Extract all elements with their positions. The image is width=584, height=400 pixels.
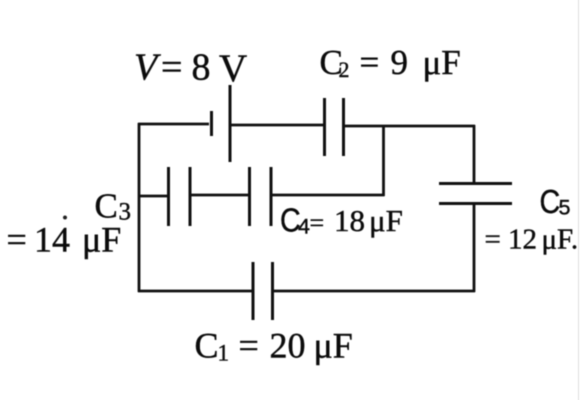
svg-text:V: V (219, 47, 247, 90)
wire bottom segment left (138, 290, 252, 293)
capacitor C1 right plate (271, 262, 274, 320)
svg-text:μF.: μF. (542, 224, 579, 256)
label C5 (540, 183, 571, 220)
stray dot above 4 (63, 216, 67, 220)
svg-text:=: = (239, 326, 259, 366)
svg-text:=: = (7, 220, 27, 260)
svg-text:μF: μF (82, 220, 121, 260)
svg-text:2: 2 (339, 57, 350, 82)
wire left vertical (138, 123, 141, 292)
svg-text:=: = (360, 43, 380, 82)
svg-text:14: 14 (34, 220, 70, 260)
svg-text:20: 20 (270, 326, 306, 366)
label C4 = 18 uF (280, 202, 403, 239)
svg-text:=: = (161, 47, 182, 89)
capacitor C2 right plate (342, 98, 345, 156)
capacitor C5 bottom plate (439, 202, 512, 205)
svg-text:1: 1 (218, 341, 230, 366)
wire top segment right (344, 125, 475, 128)
capacitor C1 left plate (252, 262, 255, 320)
svg-text:μF: μF (423, 43, 461, 82)
svg-text:8: 8 (192, 47, 211, 89)
capacitor C4 right plate (270, 167, 273, 226)
wire right vertical upper (473, 125, 476, 183)
wire from C4 to junction (272, 194, 385, 197)
battery V1 short plate (210, 111, 213, 136)
label = 12 uF. (485, 224, 579, 256)
capacitor C4 left plate (248, 167, 251, 226)
label C2 = 9 uF (320, 43, 461, 82)
wire top segment left (138, 123, 209, 126)
wire right vertical lower (473, 204, 476, 292)
svg-text:4: 4 (298, 215, 310, 239)
svg-text:9: 9 (391, 43, 409, 82)
svg-text:μF: μF (369, 203, 403, 238)
wire junction stub down (382, 126, 385, 196)
wire bottom segment right (274, 290, 476, 293)
wire top segment middle (231, 124, 323, 127)
capacitor C5 top plate (439, 182, 512, 185)
capacitor C3 right plate (189, 167, 192, 226)
label C1 = 20 uF (195, 326, 353, 366)
label C3 (95, 187, 132, 226)
svg-text:V: V (134, 47, 161, 89)
capacitor C3 left plate (167, 167, 170, 226)
wire middle stub from left rail (138, 195, 168, 198)
wire between C3 and C4 (191, 194, 249, 197)
svg-text:μF: μF (314, 326, 353, 366)
capacitor C2 left plate (323, 98, 326, 156)
svg-text:=: = (310, 209, 325, 238)
label V = 8 V (134, 47, 247, 91)
svg-text:12: 12 (508, 224, 537, 256)
label = 14 uF (7, 220, 122, 260)
battery V1 long plate (229, 85, 232, 162)
svg-text:18: 18 (334, 203, 365, 238)
svg-text:C: C (540, 183, 561, 220)
svg-text:=: = (485, 224, 501, 256)
faint screenshot edge line right (578, 0, 580, 400)
svg-text:C: C (195, 326, 219, 366)
svg-text:5: 5 (559, 196, 571, 220)
